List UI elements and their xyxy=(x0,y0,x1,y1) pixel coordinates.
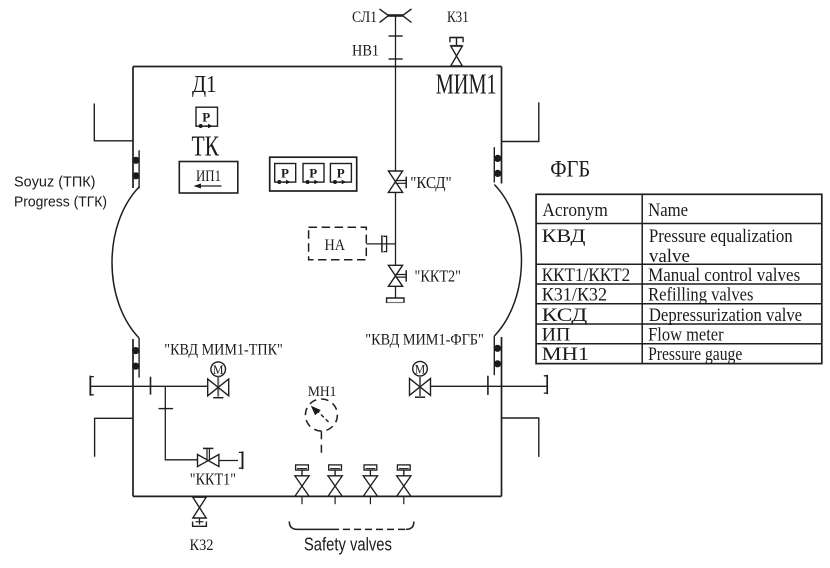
end cap below ККТ2 xyxy=(387,298,404,303)
svg-text:М: М xyxy=(213,363,224,377)
connector flange on НА wire xyxy=(381,235,383,252)
wire: НА box to vent pipe xyxy=(366,243,395,245)
right lower hatch dot 1 xyxy=(494,345,501,352)
connector bracket on НА wire xyxy=(383,236,386,251)
wire: МН1 dashed stem xyxy=(320,431,322,453)
svg-text:К31: К31 xyxy=(447,9,469,26)
wire: ККТ1 to end bracket xyxy=(219,460,238,462)
valve ККТ1 (manual control) xyxy=(198,448,219,466)
wire: ККТ2 to end cap xyxy=(395,286,397,298)
svg-text:ТК: ТК xyxy=(192,132,220,163)
left lower hatch line xyxy=(138,338,140,378)
svg-text:ИП1: ИП1 xyxy=(196,168,221,185)
dashed brace under safety valves xyxy=(289,522,414,530)
svg-text:К32: К32 xyxy=(190,537,214,554)
left upper hatch line xyxy=(138,150,140,188)
motor valve КВД МИМ1-ФГБ xyxy=(410,361,431,397)
bottom-right docking flange bracket xyxy=(502,418,539,457)
pipe end connector ] right xyxy=(546,375,548,394)
svg-text:valve: valve xyxy=(649,247,690,267)
svg-text:Acronym: Acronym xyxy=(542,201,608,221)
right upper hatch line xyxy=(493,147,495,182)
svg-text:Safety valves: Safety valves xyxy=(304,535,392,555)
valve К32 (refilling, below bottom wall) xyxy=(193,497,207,526)
svg-text:Name: Name xyxy=(648,201,688,221)
safety valve 3 xyxy=(363,465,377,504)
connector tick НВ1 lower xyxy=(389,58,403,60)
svg-text:ИП: ИП xyxy=(542,326,571,346)
wire: branch down to ККТ1 xyxy=(165,386,197,460)
connector flange tick on ТПК wire xyxy=(150,377,152,395)
svg-text:"ККТ2": "ККТ2" xyxy=(415,267,462,286)
МН1 needle xyxy=(318,411,329,422)
legend table xyxy=(536,194,822,363)
right upper hatch dot 2 xyxy=(494,170,501,177)
module МИМ1 left wall lower segment xyxy=(132,339,134,496)
connector flange tick on ФГБ wire xyxy=(487,376,489,395)
vent fitting СЛ1 symbol xyxy=(388,14,403,17)
left lower hatch dot 1 xyxy=(132,347,139,354)
svg-text:"ККТ1": "ККТ1" xyxy=(190,470,236,489)
svg-text:"КВД МИМ1-ФГБ": "КВД МИМ1-ФГБ" xyxy=(365,332,484,349)
svg-text:МН1: МН1 xyxy=(542,345,589,365)
module МИМ1 bottom wall xyxy=(133,495,502,497)
flow meter ИП1 box xyxy=(179,162,238,194)
svg-text:Flow meter: Flow meter xyxy=(648,326,724,346)
wire: vent pipe from СЛ1 down through top wall to КСД xyxy=(395,16,397,171)
svg-text:Progress (ТГК): Progress (ТГК) xyxy=(14,195,107,211)
safety valve 4 xyxy=(397,465,411,504)
pressure gauge МН1 dashed circle xyxy=(305,399,337,431)
svg-text:"КСД": "КСД" xyxy=(410,173,452,192)
wire: pipe КСД to НА junction to ККТ2 xyxy=(395,192,397,265)
svg-text:Soyuz (ТПК): Soyuz (ТПК) xyxy=(14,175,96,191)
right upper hatch dot 1 xyxy=(494,155,501,162)
svg-text:Depressurization valve: Depressurization valve xyxy=(649,306,802,326)
svg-text:КСД: КСД xyxy=(542,306,588,326)
right lower hatch dot 2 xyxy=(494,360,501,367)
right lower hatch line xyxy=(493,336,495,375)
valve К31 (refilling, on top wall) xyxy=(450,38,464,67)
svg-text:Manual control valves: Manual control valves xyxy=(648,266,800,286)
unit НА dashed box xyxy=(309,227,367,259)
svg-text:Refilling valves: Refilling valves xyxy=(648,286,753,306)
svg-text:Pressure equalization: Pressure equalization xyxy=(649,227,793,247)
valve ККТ2 (manual control) xyxy=(388,265,406,286)
svg-text:P: P xyxy=(281,166,289,181)
svg-text:P: P xyxy=(202,110,210,125)
svg-text:МИМ1: МИМ1 xyxy=(436,70,497,101)
svg-text:МН1: МН1 xyxy=(308,384,337,400)
svg-text:"КВД МИМ1-ТПК": "КВД МИМ1-ТПК" xyxy=(164,342,282,359)
svg-text:НА: НА xyxy=(325,237,346,254)
sensor block ТК: outer box with three P transducers xyxy=(270,157,357,191)
svg-text:К31/К32: К31/К32 xyxy=(542,286,607,306)
safety valve 1 xyxy=(295,465,309,504)
svg-text:ККТ1/ККТ2: ККТ1/ККТ2 xyxy=(542,266,631,286)
wire: left wall to КВД МИМ1-ТПК valve xyxy=(91,385,208,387)
sensor Д1 pressure transducer box xyxy=(196,107,218,128)
module МИМ1 left wall upper segment xyxy=(132,67,134,189)
motor valve КВД МИМ1-ТПК xyxy=(208,362,229,398)
svg-text:КВД: КВД xyxy=(542,227,586,247)
left lower hatch dot 2 xyxy=(132,363,139,370)
P transducer 1 xyxy=(275,164,296,185)
svg-text:P: P xyxy=(337,166,345,181)
pipe end connector ] after ККТ1 xyxy=(242,451,244,469)
bottom-left docking flange bracket xyxy=(95,418,133,457)
svg-text:М: М xyxy=(415,363,426,377)
left upper hatch dot 2 xyxy=(132,172,139,179)
valve КСД (depressurization) xyxy=(388,171,406,192)
module МИМ1 right wall upper segment xyxy=(501,67,503,184)
right docking cone arc xyxy=(494,185,521,337)
svg-text:ФГБ: ФГБ xyxy=(550,157,590,182)
P transducer 3 xyxy=(330,164,351,185)
module МИМ1 right wall lower segment xyxy=(501,337,503,496)
svg-text:Pressure gauge: Pressure gauge xyxy=(648,345,742,365)
svg-text:НВ1: НВ1 xyxy=(352,42,379,59)
svg-text:Д1: Д1 xyxy=(192,72,217,98)
svg-text:СЛ1: СЛ1 xyxy=(352,9,377,26)
connector tick НВ1 upper xyxy=(389,35,403,37)
svg-text:P: P xyxy=(309,166,317,181)
safety valve 2 xyxy=(328,465,342,504)
left upper hatch dot 1 xyxy=(132,157,139,164)
pipe end connector [ left xyxy=(89,376,91,396)
left docking cone arc xyxy=(112,187,139,338)
module МИМ1 top wall xyxy=(133,66,502,68)
top-right docking flange bracket xyxy=(502,102,539,141)
top-left docking flange bracket xyxy=(94,104,133,141)
connector tick on ККТ1 branch xyxy=(159,408,174,410)
P transducer 2 xyxy=(303,164,324,185)
wire: КВД МИМ1-ФГБ valve to right wall and outside xyxy=(431,385,548,387)
